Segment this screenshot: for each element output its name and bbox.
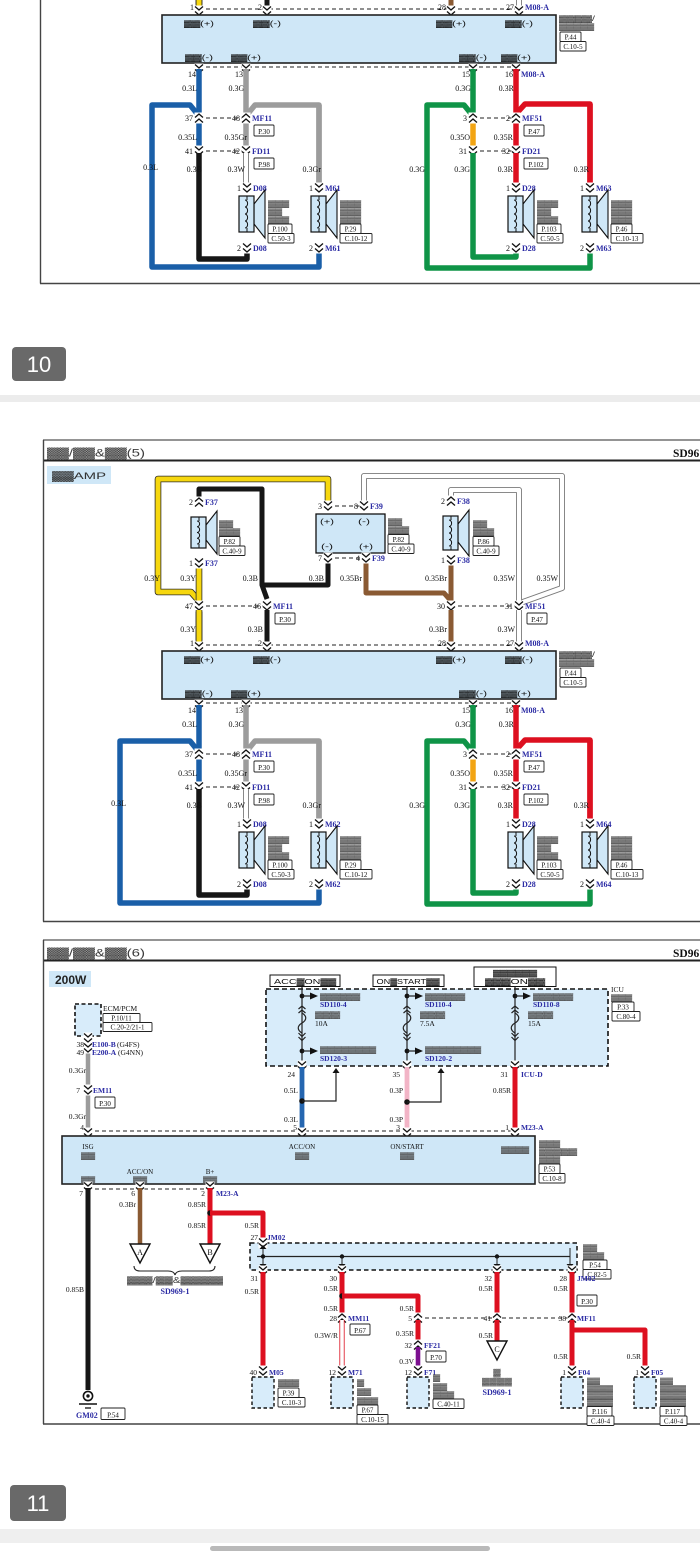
svg-text:▓▓: ▓▓ <box>583 1244 598 1252</box>
svg-text:JM02: JM02 <box>267 1233 286 1242</box>
svg-text:0.35R: 0.35R <box>494 133 514 142</box>
wire black 41 to D08.2 <box>199 789 247 895</box>
speaker D08 <box>239 826 265 874</box>
svg-text:M08-A: M08-A <box>525 3 549 12</box>
wire blue 37-41 <box>196 118 202 151</box>
svg-text:1: 1 <box>309 820 313 829</box>
svg-text:(G4NN): (G4NN) <box>118 1048 143 1057</box>
dcdc conn ref <box>539 1174 565 1184</box>
svg-text:P.103: P.103 <box>541 861 557 869</box>
svg-text:31: 31 <box>251 1274 259 1283</box>
box pin 28 <box>447 642 456 653</box>
svg-text:▓▓(-): ▓▓(-) <box>505 20 533 28</box>
svg-text:P.116: P.116 <box>592 1408 608 1416</box>
svg-text:0.3W: 0.3W <box>497 625 515 634</box>
svg-text:ICU-D: ICU-D <box>521 1070 543 1079</box>
svg-text:F04: F04 <box>578 1368 590 1377</box>
svg-text:▓▓: ▓▓ <box>537 844 552 852</box>
box pin 16 <box>512 700 521 711</box>
svg-text:C: C <box>494 1345 499 1354</box>
section 3 frame left border <box>43 940 45 1424</box>
svg-text:0.85R: 0.85R <box>188 1221 206 1230</box>
svg-text:▓▓(+): ▓▓(+) <box>436 20 466 28</box>
FD21 pin 31 <box>469 782 478 793</box>
speaker M61 <box>311 190 337 238</box>
svg-text:GM02: GM02 <box>76 1411 98 1420</box>
svg-text:C.40-11: C.40-11 <box>437 1400 460 1408</box>
wire blue outer loop to tweeter <box>120 741 319 903</box>
svg-text:▓▓▓: ▓▓▓ <box>219 528 241 536</box>
wire red to F04 <box>570 1320 575 1371</box>
svg-text:P.10/11: P.10/11 <box>111 1014 132 1022</box>
svg-text:P.100: P.100 <box>272 861 288 869</box>
power box exit 31 <box>511 1061 520 1072</box>
svg-text:C.50-3: C.50-3 <box>271 871 291 879</box>
svg-text:48: 48 <box>232 750 240 759</box>
svg-text:0.3Gr: 0.3Gr <box>303 801 322 810</box>
speaker M63 <box>582 190 608 238</box>
box pin 13 <box>242 700 251 711</box>
M63 conn ref <box>611 234 643 244</box>
svg-text:▓▓(+): ▓▓(+) <box>501 690 531 698</box>
svg-text:B+: B+ <box>206 1168 215 1176</box>
svg-text:42: 42 <box>232 783 240 792</box>
wire red to antenna <box>495 1272 500 1316</box>
svg-text:▓▓: ▓▓ <box>433 1383 448 1391</box>
wire black F39.7 branch <box>263 560 328 585</box>
svg-text:M23-A: M23-A <box>216 1189 239 1198</box>
svg-text:▓▓: ▓▓ <box>81 1152 96 1160</box>
svg-text:16: 16 <box>505 706 513 715</box>
ground symbol GM02 <box>79 1391 97 1408</box>
woofer F39 box <box>316 514 385 553</box>
svg-text:P.67: P.67 <box>362 1406 374 1414</box>
svg-text:M64: M64 <box>596 820 612 829</box>
svg-text:0.3Gr: 0.3Gr <box>303 165 322 174</box>
svg-text:▓▓(-): ▓▓(-) <box>185 54 213 62</box>
svg-text:1: 1 <box>190 3 194 12</box>
wire green 31 to D28.2 <box>473 153 516 257</box>
svg-text:0.5R: 0.5R <box>400 1304 414 1313</box>
connector MF51 pin 31 <box>515 601 524 612</box>
svg-text:1: 1 <box>441 556 445 565</box>
svg-text:F37: F37 <box>205 559 218 568</box>
svg-text:0.3V: 0.3V <box>399 1357 414 1366</box>
svg-text:P.30: P.30 <box>581 1298 593 1306</box>
svg-text:▓▓▓: ▓▓▓ <box>433 1391 455 1399</box>
B+ junction dot <box>207 1210 213 1216</box>
svg-text:▓▓/▓▓&▓▓(6): ▓▓/▓▓&▓▓(6) <box>47 947 145 961</box>
svg-text:P.103: P.103 <box>541 225 557 233</box>
M71 conn ref <box>357 1415 388 1425</box>
svg-text:D08: D08 <box>253 244 267 253</box>
svg-text:41: 41 <box>185 147 193 156</box>
svg-text:6: 6 <box>131 1189 135 1198</box>
rear wireless charger F71 dashed box <box>407 1377 429 1408</box>
D08 conn ref <box>268 870 294 880</box>
FD11 dashed <box>199 786 246 788</box>
svg-text:47: 47 <box>185 602 193 611</box>
box pin 14 <box>195 64 204 75</box>
controller conn ref <box>560 42 586 52</box>
wire red memory feed <box>513 1067 518 1134</box>
ECM/PCM dashed box <box>75 1004 101 1036</box>
svg-text:C.10-13: C.10-13 <box>616 871 639 879</box>
svg-text:F37: F37 <box>205 498 218 507</box>
svg-text:0.3G: 0.3G <box>455 84 471 93</box>
svg-text:B: B <box>207 1248 212 1257</box>
svg-text:0.3B: 0.3B <box>187 165 202 174</box>
MF51 pin 3 <box>469 113 478 124</box>
svg-text:▓▓▓▓: ▓▓▓▓ <box>482 1377 513 1387</box>
MF51 bottom dashed <box>473 753 516 755</box>
wire red 32 to D28.1 <box>513 789 519 822</box>
svg-text:2: 2 <box>189 498 193 507</box>
M61 pin1 chevron <box>315 183 324 194</box>
svg-text:F05: F05 <box>651 1368 663 1377</box>
wire red 2-32 <box>513 118 519 151</box>
svg-text:0.35R: 0.35R <box>396 1329 414 1338</box>
svg-text:▓▓(-): ▓▓(-) <box>185 690 213 698</box>
wire gray ECM to head unit <box>86 1037 91 1134</box>
svg-text:P.98: P.98 <box>258 797 270 805</box>
svg-text:▓▓▓: ▓▓▓ <box>537 836 559 844</box>
svg-text:▓▓(+): ▓▓(+) <box>231 54 261 62</box>
svg-text:P.30: P.30 <box>99 1100 111 1108</box>
wire red 2-32 <box>513 754 519 787</box>
box pin 28 <box>447 6 456 17</box>
svg-text:31: 31 <box>459 147 467 156</box>
svg-text:0.35W: 0.35W <box>493 574 515 583</box>
triangle B to controller <box>200 1244 220 1263</box>
svg-text:32: 32 <box>502 147 510 156</box>
svg-text:D28: D28 <box>522 880 536 889</box>
svg-text:ACC/ON: ACC/ON <box>289 1143 315 1151</box>
svg-text:49: 49 <box>77 1048 85 1057</box>
svg-text:▓▓▓: ▓▓▓ <box>268 200 290 208</box>
svg-text:15A: 15A <box>528 1019 542 1028</box>
svg-text:P.29: P.29 <box>345 861 357 869</box>
speaker D28 <box>508 190 534 238</box>
F37 page ref <box>219 537 240 547</box>
svg-text:FD11: FD11 <box>252 147 270 156</box>
svg-text:▓▓▓: ▓▓▓ <box>357 1397 379 1405</box>
D28 pin1 chevron <box>512 183 521 194</box>
AMP equipped label box <box>47 466 111 484</box>
svg-text:SD110-4: SD110-4 <box>425 1000 452 1009</box>
box pin 16 <box>512 64 521 75</box>
FD21 page ref <box>524 158 548 169</box>
wire yellow 47 to box pin1 <box>196 0 203 9</box>
wire red 32 to D28.1 <box>513 153 519 186</box>
FF21 page ref <box>426 1351 446 1362</box>
section 3 header bottom rule <box>43 960 700 962</box>
svg-text:0.3Gr: 0.3Gr <box>69 1066 87 1075</box>
feedback arrow onstart <box>407 1068 445 1102</box>
wire gray pin13 main <box>243 705 249 752</box>
JM02 internal bus <box>257 1245 574 1268</box>
svg-text:▓▓: ▓▓ <box>660 1377 673 1385</box>
wire yellow stub pin1 <box>196 610 203 647</box>
FD11 dashed <box>199 150 246 152</box>
wire brown F39.4 branch <box>366 560 451 601</box>
fuse module2 column <box>298 987 318 1064</box>
svg-text:1: 1 <box>506 184 510 193</box>
F05 page ref <box>660 1407 685 1417</box>
pin 2 F38 <box>447 496 456 507</box>
svg-text:▓▓: ▓▓ <box>219 520 234 528</box>
svg-text:15: 15 <box>462 70 470 79</box>
svg-text:▓▓▓: ▓▓▓ <box>539 1140 561 1148</box>
svg-text:F39: F39 <box>372 554 385 563</box>
wire blue ACC feed <box>300 1067 305 1134</box>
pin 8 F39 <box>360 501 369 512</box>
svg-text:▓▓▓: ▓▓▓ <box>315 1011 341 1019</box>
MF11 pin 38 chevron <box>568 1313 577 1324</box>
D28 pin2 chevron <box>512 243 521 254</box>
box pin 2 <box>263 6 272 17</box>
svg-text:ACC/ON: ACC/ON <box>127 1168 153 1176</box>
wire white inner F38.2 to MF51.31 <box>451 490 519 640</box>
svg-text:1: 1 <box>189 559 193 568</box>
svg-text:▓▓: ▓▓ <box>473 520 488 528</box>
svg-text:P.39: P.39 <box>283 1389 295 1397</box>
MF11 bottom dashed <box>199 117 246 119</box>
svg-text:▓▓▓: ▓▓▓ <box>583 1252 605 1260</box>
svg-text:▓▓▓: ▓▓▓ <box>340 216 362 224</box>
FD21 page ref <box>524 794 548 805</box>
MF51 pin 3 <box>469 749 478 760</box>
svg-text:30: 30 <box>437 602 445 611</box>
svg-text:M62: M62 <box>325 820 341 829</box>
svg-text:M23-A: M23-A <box>521 1123 544 1132</box>
MF11 page ref <box>275 613 295 624</box>
svg-text:28: 28 <box>438 3 446 12</box>
wire brown stub pin28 <box>449 610 454 647</box>
svg-text:0.35O: 0.35O <box>450 769 470 778</box>
svg-text:▓▓▓: ▓▓▓ <box>388 526 410 534</box>
ant pin 41 chevron <box>493 1313 502 1324</box>
wire yellow F37.1 to 47 <box>196 0 203 4</box>
svg-text:▓▓▓: ▓▓▓ <box>340 208 362 216</box>
svg-text:P.67: P.67 <box>354 1327 366 1335</box>
M62 page ref <box>340 860 361 870</box>
svg-text:P.33: P.33 <box>617 1003 629 1011</box>
bottom scrollbar indicator <box>210 1546 490 1551</box>
FD11 pin 42 <box>242 146 251 157</box>
svg-text:10A: 10A <box>315 1019 329 1028</box>
wire white 42 to D08.1 <box>246 789 247 822</box>
svg-text:P.82: P.82 <box>393 536 405 544</box>
svg-text:▓▓▓▓: ▓▓▓▓ <box>660 1399 686 1407</box>
wire gray to M-tweeter.1 <box>316 741 322 822</box>
junction dot mm11 <box>339 1293 345 1299</box>
D08 page ref <box>268 860 292 870</box>
svg-text:C.10-5: C.10-5 <box>563 679 583 687</box>
svg-text:M61: M61 <box>325 184 341 193</box>
svg-text:MF51: MF51 <box>522 750 542 759</box>
front wireless charger M71 dashed box <box>331 1377 353 1408</box>
D28 conn ref <box>537 870 563 880</box>
MF11 page ref 2 <box>254 761 274 772</box>
svg-text:1: 1 <box>237 820 241 829</box>
svg-text:0.35R: 0.35R <box>494 769 514 778</box>
svg-text:M08-A: M08-A <box>525 639 549 648</box>
svg-text:F38: F38 <box>457 497 470 506</box>
svg-text:M61: M61 <box>325 244 341 253</box>
svg-text:3: 3 <box>318 502 322 511</box>
svg-text:0.3L: 0.3L <box>143 163 158 172</box>
section 1 frame left border <box>40 0 42 284</box>
ICU conn ref <box>612 1012 640 1022</box>
wire white stub pin27 <box>516 0 522 11</box>
svg-text:0.3Br: 0.3Br <box>119 1200 136 1209</box>
D08 pin2 chevron <box>243 243 252 254</box>
svg-text:0.35L: 0.35L <box>178 769 197 778</box>
wire blue 37-41 <box>196 754 202 787</box>
svg-text:▓▓▓/▓▓&▓▓▓▓▓: ▓▓▓/▓▓&▓▓▓▓▓ <box>127 1276 223 1286</box>
junction dot onstart <box>404 1099 410 1105</box>
JM02 pin 28 chevron <box>568 1266 577 1277</box>
wire red to MF11.38 <box>570 1272 575 1316</box>
svg-text:0.3L: 0.3L <box>182 84 197 93</box>
svg-text:200W: 200W <box>55 973 87 987</box>
svg-text:0.35Gr: 0.35Gr <box>225 133 248 142</box>
wire black stub pin2 <box>265 0 270 11</box>
svg-text:▓: ▓ <box>357 1379 365 1387</box>
wire black ground <box>86 1188 91 1390</box>
M64 page ref <box>611 860 632 870</box>
svg-text:16: 16 <box>505 70 513 79</box>
M64 pin2 chevron <box>586 879 595 890</box>
wire white inner F38.2 to MF51.31 <box>451 0 519 4</box>
JM02 page ref <box>583 1260 607 1270</box>
svg-text:▓▓: ▓▓ <box>388 518 403 526</box>
svg-text:1: 1 <box>190 639 194 648</box>
section 2 header top rule <box>43 439 700 441</box>
M62 pin2 chevron <box>315 879 324 890</box>
MF51 page ref 2 <box>524 125 544 136</box>
svg-text:SD120-2: SD120-2 <box>425 1054 452 1063</box>
svg-text:0.3R: 0.3R <box>574 165 590 174</box>
battery relay power label box <box>474 967 556 987</box>
svg-text:SD969-1: SD969-1 <box>483 1388 512 1397</box>
svg-text:0.3Br: 0.3Br <box>429 625 447 634</box>
FD11 pin 42 <box>242 782 251 793</box>
box top pin dashed line <box>199 644 519 646</box>
svg-text:0.5R: 0.5R <box>245 1287 259 1296</box>
GM02 page ref <box>101 1408 125 1420</box>
wire yellow F39.3 to junction 47 <box>158 479 328 601</box>
svg-text:C.10-13: C.10-13 <box>616 235 639 243</box>
FD11 page ref <box>254 158 274 169</box>
head pin 1 <box>511 1128 520 1139</box>
box pin 13 <box>242 64 251 75</box>
box pin 1 <box>195 6 204 17</box>
svg-text:0.85R: 0.85R <box>493 1086 511 1095</box>
svg-text:0.3B: 0.3B <box>248 625 263 634</box>
svg-text:P.44: P.44 <box>565 669 577 677</box>
svg-text:SD110-8: SD110-8 <box>533 1000 560 1009</box>
wire brown accon out <box>138 1188 143 1244</box>
D08 pin1 chevron <box>243 183 252 194</box>
M05 page ref <box>278 1388 299 1398</box>
ECM page ref <box>103 1014 140 1023</box>
svg-text:P.98: P.98 <box>258 161 270 169</box>
svg-text:▓▓▓: ▓▓▓ <box>278 1379 300 1387</box>
svg-text:C.40-9: C.40-9 <box>476 547 496 555</box>
MF51 pin 2 <box>512 749 521 760</box>
svg-text:(-): (-) <box>321 544 333 551</box>
svg-text:FD21: FD21 <box>522 147 541 156</box>
junction dot acc <box>299 1098 305 1104</box>
MF11 pin 5 chevron <box>414 1313 423 1324</box>
M62 pin1 chevron <box>315 819 324 830</box>
audio/video navigation controller box M08-A <box>162 651 556 699</box>
MM11 pin 28 chevron <box>338 1313 347 1324</box>
svg-text:0.3G: 0.3G <box>409 801 425 810</box>
svg-text:13: 13 <box>235 70 243 79</box>
svg-text:0.35W: 0.35W <box>536 574 558 583</box>
svg-text:▓▓▓▓: ▓▓▓▓ <box>660 1392 686 1400</box>
svg-text:▓▓▓▓: ▓▓▓▓ <box>660 1385 686 1393</box>
triangle A to controller <box>130 1244 150 1263</box>
svg-text:7.5A: 7.5A <box>420 1019 435 1028</box>
svg-text:C.20-2/21-1: C.20-2/21-1 <box>110 1023 145 1031</box>
svg-text:SD110-4: SD110-4 <box>320 1000 347 1009</box>
svg-text:P.117: P.117 <box>665 1408 681 1416</box>
svg-text:0.5R: 0.5R <box>245 1221 259 1230</box>
M63 page ref <box>611 224 632 234</box>
svg-text:2: 2 <box>580 244 584 253</box>
section 3 frame bottom border <box>43 1423 700 1425</box>
JM02 pin 31 chevron <box>259 1266 268 1277</box>
svg-text:0.3R: 0.3R <box>499 720 515 729</box>
svg-text:1: 1 <box>635 1368 639 1377</box>
svg-text:▓▓▓: ▓▓▓ <box>611 852 633 860</box>
MF11 connector row dashed <box>418 1317 572 1319</box>
svg-text:2: 2 <box>258 639 262 648</box>
wire red loop to tweeter <box>516 740 590 822</box>
gray separator band <box>0 395 700 402</box>
ON/START power source label box <box>373 975 444 987</box>
svg-text:1: 1 <box>237 184 241 193</box>
wire green pin15 main <box>470 69 476 116</box>
F05 conn ref <box>660 1416 687 1426</box>
D28 pin1 chevron <box>512 819 521 830</box>
head pin 7 <box>84 1182 93 1193</box>
speaker D08 <box>239 190 265 238</box>
svg-text:F39: F39 <box>370 502 383 511</box>
200W label box <box>49 971 91 987</box>
svg-text:MF11: MF11 <box>252 750 272 759</box>
svg-text:M62: M62 <box>325 880 341 889</box>
M71 pin 12 chevron <box>338 1366 347 1377</box>
svg-text:28: 28 <box>560 1274 568 1283</box>
svg-text:▓▓▓▓▓: ▓▓▓▓▓ <box>559 659 595 667</box>
svg-text:▓▓(+): ▓▓(+) <box>184 656 214 664</box>
box pin 2 <box>263 642 272 653</box>
power distribution dashed box <box>266 989 608 1066</box>
MF11 pin 37 <box>195 749 204 760</box>
svg-text:0.5R: 0.5R <box>554 1284 568 1293</box>
svg-text:P.54: P.54 <box>589 1261 601 1269</box>
svg-text:▓▓: ▓▓ <box>400 1152 415 1160</box>
svg-text:▓▓AMP: ▓▓AMP <box>52 471 106 482</box>
pin 1 F38 <box>447 555 456 566</box>
wire gray pin13 loop <box>246 105 319 186</box>
svg-text:0.3Gr: 0.3Gr <box>69 1112 87 1121</box>
